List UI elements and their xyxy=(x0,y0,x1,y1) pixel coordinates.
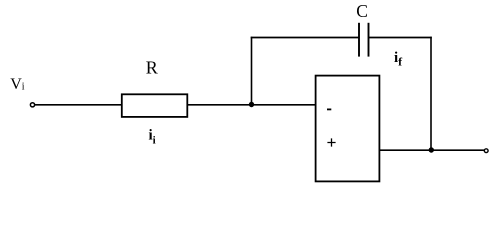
wire input terminal to resistor xyxy=(35,104,121,106)
op-amp inverting input marker - xyxy=(327,109,331,111)
capacitor C right plate xyxy=(368,23,370,57)
wire op-amp output xyxy=(379,149,485,151)
wire resistor to op-amp inverting input xyxy=(188,104,315,106)
wire node A up to feedback xyxy=(251,37,253,105)
svg-text:C: C xyxy=(356,1,368,21)
input terminal Vi xyxy=(30,103,34,107)
wire capacitor right plate to feedback vertical xyxy=(369,37,432,39)
op-amp U1 xyxy=(316,76,380,182)
output node junction dot xyxy=(429,147,434,152)
output terminal xyxy=(484,149,488,153)
wire feedback vertical down to output node xyxy=(430,37,432,150)
node A junction dot (inverting input node) xyxy=(249,102,254,107)
resistor R xyxy=(122,94,188,117)
op-amp non-inverting input marker + xyxy=(327,138,335,146)
capacitor C left plate xyxy=(358,23,360,57)
wire feedback top left to capacitor xyxy=(251,37,360,39)
svg-text:R: R xyxy=(146,57,158,77)
